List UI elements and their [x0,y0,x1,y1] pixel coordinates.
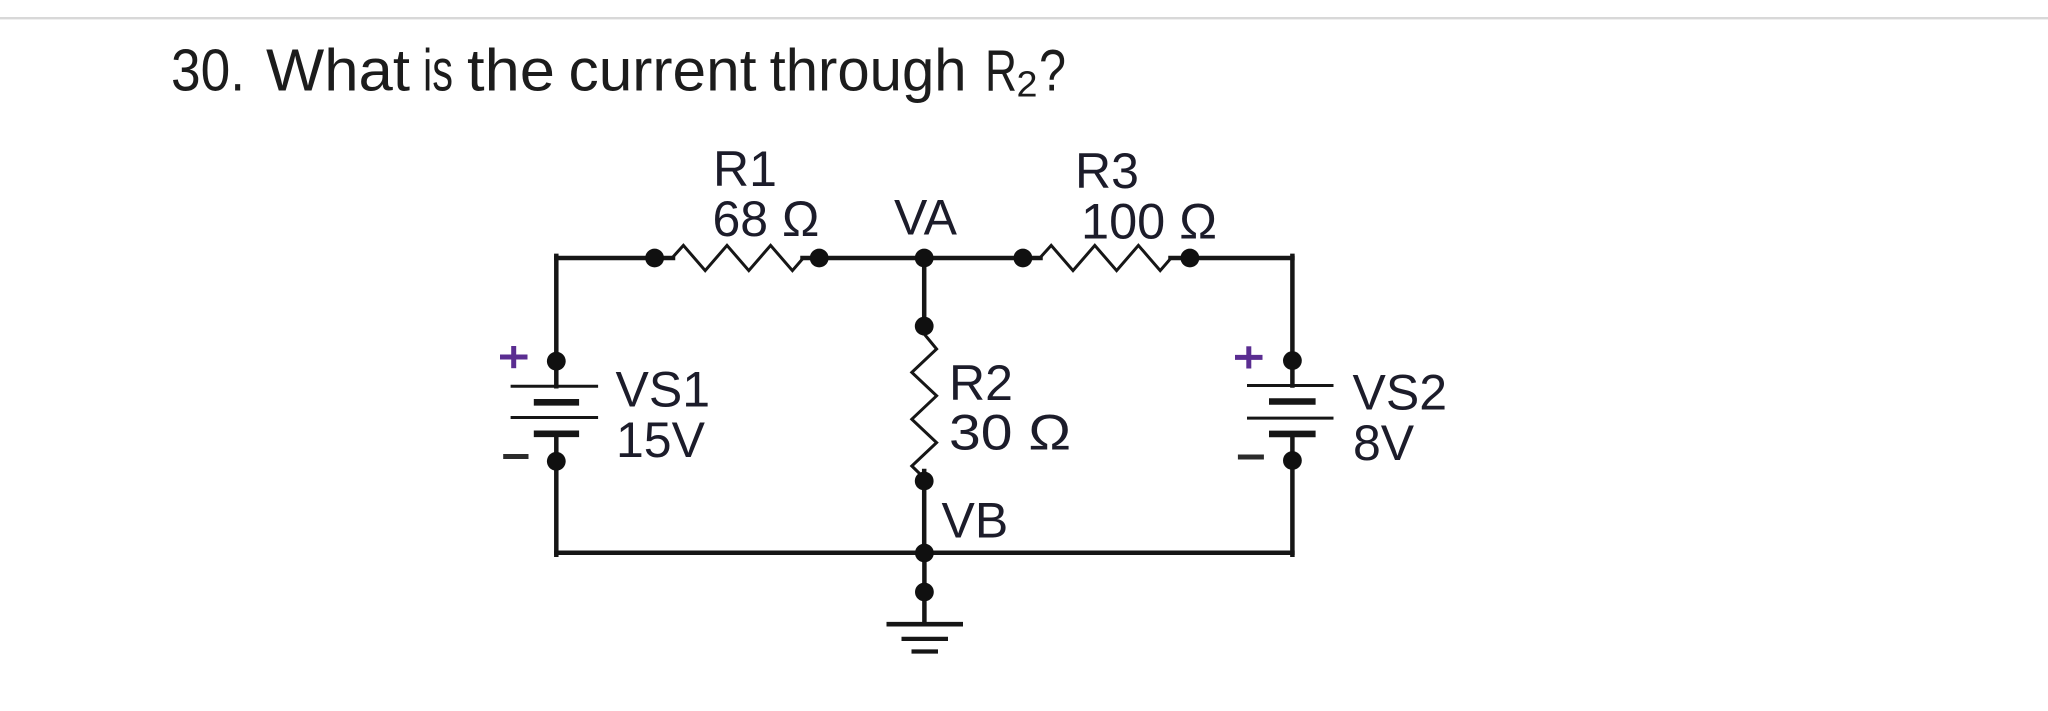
node dot: right of R3 [1181,249,1200,268]
ground [887,624,964,651]
svg-text:VS2: VS2 [1353,365,1448,421]
VS2 plus polarity mark [1235,346,1263,368]
node dot: bottom of R2 [915,472,934,491]
svg-text:R2: R2 [949,355,1013,411]
node dot: VS1 - terminal [547,452,566,471]
svg-text:100 Ω: 100 Ω [1081,194,1217,250]
wire: left vertical lower (VS1 - terminal to bottom rail) [554,434,559,555]
top divider rule [0,17,2048,19]
node B dot (VB) [915,544,934,563]
wire: top left segment (VS1 top corner to R1) [556,256,673,261]
wire: left vertical upper (to VS1 + terminal) [554,256,559,386]
wire: bottom rail [556,550,1292,555]
resistor R3 zigzag [1040,245,1171,270]
wire: right vertical upper (to VS2 + terminal) [1290,256,1295,386]
node dot: ground stub [915,583,934,602]
VS1 minus polarity mark [503,454,528,459]
node dot: VS1 + terminal [547,352,566,371]
resistor R2 zigzag [912,334,937,478]
node dot: top of R2 [915,317,934,336]
wire: top right segment (R3 to VS2 corner) [1171,256,1293,261]
battery VS1 [511,386,598,434]
wire: top middle segment (R1 to R3 through node VA) [803,256,1041,261]
node dot: left of R1 [645,249,664,268]
node A dot (VA) [915,249,934,268]
node dot: VS2 - terminal [1283,451,1302,470]
svg-text:VS1: VS1 [616,361,711,417]
svg-text:15V: 15V [616,412,706,468]
node dot: left of R3 [1014,249,1033,268]
svg-text:R3: R3 [1075,143,1139,199]
VS1 plus polarity mark [500,346,528,368]
svg-text:30.WhatisthecurrentthroughR2?: 30.WhatisthecurrentthroughR2? [171,37,1066,105]
VS2 minus polarity mark [1238,455,1264,460]
svg-text:R1: R1 [713,141,777,197]
node dot: right of R1 [810,249,829,268]
svg-text:30 Ω: 30 Ω [949,405,1071,461]
svg-text:8V: 8V [1353,415,1415,471]
svg-text:VA: VA [894,190,958,246]
wire: ground stub below node VB [922,553,927,620]
svg-text:VB: VB [942,493,1009,549]
resistor R1 zigzag [672,245,803,270]
wire: R2 bottom lead down to node VB [922,471,927,553]
svg-text:68 Ω: 68 Ω [713,191,820,247]
battery VS2 [1247,386,1334,434]
wire: node VA stub down to R2 [922,258,927,333]
node dot: VS2 + terminal [1283,351,1302,370]
wire: right vertical lower (VS2 - terminal to bottom rail) [1290,434,1295,555]
